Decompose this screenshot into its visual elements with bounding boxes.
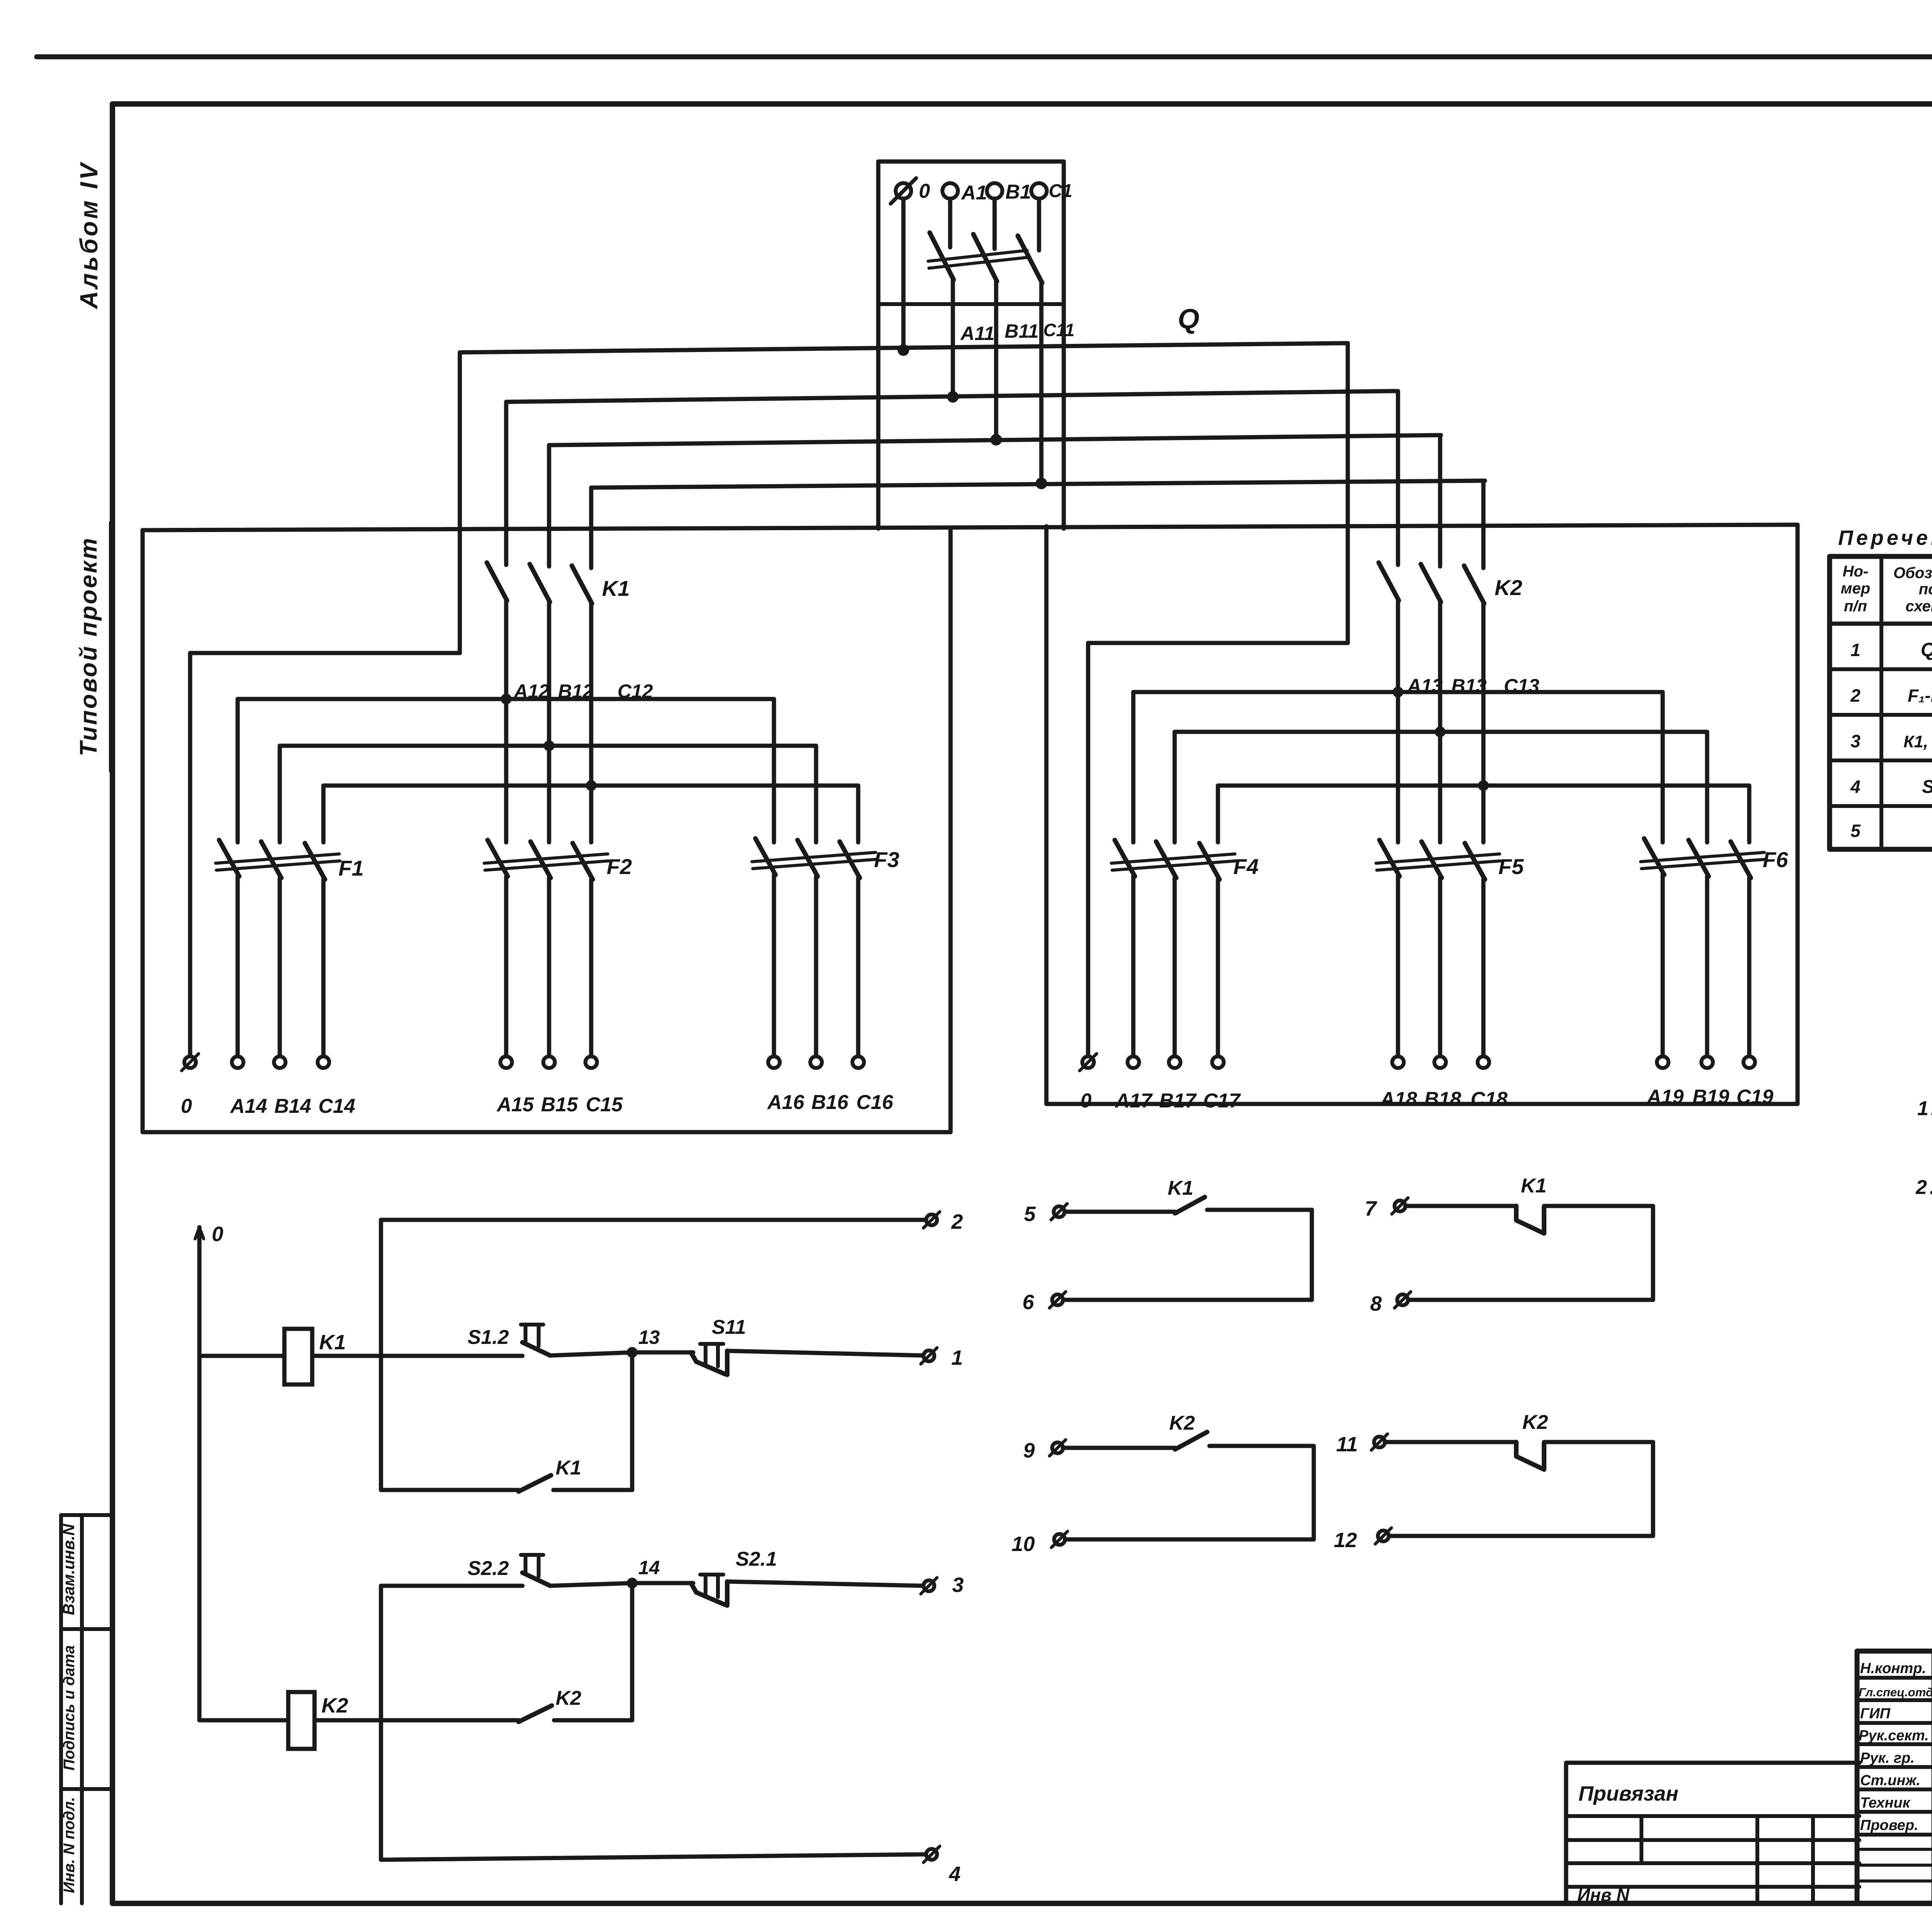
svg-text:A16: A16 — [767, 1091, 804, 1114]
svg-text:S1.2: S1.2 — [468, 1326, 509, 1349]
svg-text:6: 6 — [1022, 1291, 1034, 1314]
svg-text:B19: B19 — [1692, 1086, 1729, 1108]
terminal 2 — [926, 1214, 937, 1225]
terminal C1 — [1031, 183, 1047, 199]
terminal 10 — [1054, 1534, 1065, 1545]
wire 9 to K2 contact — [1063, 1446, 1175, 1450]
bus wire B — [549, 435, 1441, 445]
wire back to terminal 12 — [1389, 1534, 1653, 1538]
output wires 1RU — [238, 875, 858, 1056]
wire vertical S2.2 to terminal 4 — [379, 1586, 383, 1860]
wire to terminal 4 — [381, 1854, 926, 1860]
terminal 3 — [923, 1580, 934, 1591]
button S11 actuator — [700, 1344, 723, 1366]
svg-text:B11: B11 — [1005, 320, 1039, 342]
contactor K2 blade B — [1421, 564, 1441, 602]
svg-text:Н.контр.: Н.контр. — [1860, 1660, 1926, 1677]
svg-text:Но-: Но- — [1843, 563, 1869, 580]
output wires 2RU — [1133, 875, 1749, 1056]
breaker F6 crossbar — [1641, 852, 1765, 869]
wire 0 down — [901, 199, 906, 350]
wire phase B to F4/F6 — [1175, 732, 1707, 842]
svg-text:K2: K2 — [1522, 1411, 1548, 1434]
wire to corner — [1209, 1444, 1314, 1448]
svg-text:Рук.сект.: Рук.сект. — [1859, 1728, 1929, 1744]
svg-text:K1: K1 — [319, 1331, 346, 1354]
distribution cabinet 1RU top shared line — [143, 525, 1798, 530]
table row lines — [1830, 669, 1932, 806]
svg-text:K2: K2 — [1169, 1412, 1195, 1434]
wire B1 down — [993, 199, 997, 249]
svg-text:F2: F2 — [607, 854, 632, 879]
arrow tip of 0 — [195, 1227, 204, 1239]
wire vertical terminal2 to K1 aux — [379, 1220, 383, 1490]
breaker F2 blades — [488, 840, 593, 879]
contact K1 NC (7-8) — [1516, 1206, 1544, 1233]
loop 7-8 right vertical — [1651, 1206, 1655, 1300]
svg-text:5: 5 — [1024, 1202, 1036, 1226]
loop 5-6 right vertical — [1310, 1210, 1314, 1300]
svg-text:Техник: Техник — [1860, 1795, 1911, 1811]
wire B11 — [994, 281, 998, 440]
wire node 13 to S11 — [632, 1350, 693, 1355]
button S2.2 blade — [522, 1573, 550, 1586]
svg-text:Подпись и дата: Подпись и дата — [61, 1645, 78, 1770]
svg-text:B15: B15 — [541, 1094, 578, 1116]
terminal 0 of 1RU — [184, 1056, 196, 1068]
terminal A1 — [942, 183, 958, 199]
wire K2 feed B — [1438, 435, 1442, 566]
wire K1 feed B — [547, 445, 551, 566]
underline of IV — [110, 164, 113, 201]
svg-text:A15: A15 — [496, 1094, 534, 1116]
terminal 0 of Q — [896, 183, 911, 199]
svg-text:Альбом IV: Альбом IV — [75, 161, 103, 310]
svg-text:1: 1 — [951, 1346, 963, 1369]
wire phase C to F4/F6 — [1218, 786, 1749, 842]
coil K2 — [288, 1692, 315, 1749]
svg-text:K2: K2 — [1495, 575, 1522, 600]
wire K1 aux to riser — [553, 1488, 632, 1492]
knife blade pole C — [1018, 236, 1042, 283]
contactor K1 blade B — [530, 564, 550, 602]
node A13 tap — [1393, 687, 1403, 697]
wire B12 — [547, 602, 551, 842]
svg-text:0: 0 — [919, 180, 930, 202]
wire to corner — [1544, 1440, 1653, 1444]
svg-text:по: по — [1919, 581, 1932, 598]
wire A11 — [951, 280, 955, 397]
svg-text:Перечень аппаратуры распреде: Перечень аппаратуры распределительного у… — [1838, 526, 1932, 549]
svg-text:F3: F3 — [874, 847, 899, 872]
button S11 contact — [691, 1351, 727, 1375]
wire S11 to terminal 1 — [727, 1351, 923, 1355]
breaker F3 crossbar — [752, 852, 876, 869]
wire C11 — [1039, 283, 1044, 483]
svg-text:S: S — [1922, 777, 1932, 797]
node B13 tap — [1435, 726, 1446, 737]
breaker F1 crossbar — [216, 854, 340, 870]
breaker F2 crossbar — [484, 854, 609, 870]
margin stamp column — [61, 1515, 112, 1903]
breaker F5 blades — [1379, 840, 1485, 879]
wire C12 — [589, 604, 594, 842]
svg-text:Провер.: Провер. — [1860, 1817, 1918, 1833]
wire node 14 to S2.1 — [632, 1581, 693, 1585]
svg-text:A19: A19 — [1646, 1086, 1684, 1108]
wire K2 aux to riser — [554, 1718, 632, 1723]
terminal 11 — [1374, 1437, 1385, 1447]
wire 0 to coil K1 — [199, 1354, 284, 1358]
svg-text:C16: C16 — [856, 1091, 893, 1114]
svg-text:Инв N: Инв N — [1577, 1885, 1629, 1905]
top rule line — [37, 54, 1932, 60]
svg-text:B16: B16 — [811, 1091, 849, 1114]
svg-text:5: 5 — [1850, 821, 1861, 841]
contact K2 blade (9-10) — [1175, 1432, 1207, 1449]
distribution cabinet 2RU outline — [1046, 525, 1798, 1104]
node C13 tap — [1478, 780, 1489, 791]
breaker F1 blades — [219, 840, 325, 879]
table outline — [1830, 556, 1932, 849]
contact K1 blade (5-6) — [1175, 1197, 1205, 1213]
svg-text:F5: F5 — [1498, 854, 1524, 879]
output terminals 1RU — [232, 1056, 864, 1068]
svg-text:0: 0 — [181, 1095, 192, 1117]
contactor K2 blade A — [1379, 563, 1399, 600]
button S2.1 contact — [691, 1582, 727, 1605]
breaker F3 blades — [755, 838, 860, 878]
svg-text:K1: K1 — [556, 1457, 581, 1479]
breaker F5 crossbar — [1376, 854, 1500, 870]
cabinet 1RU outline — [143, 528, 951, 1132]
terminal 1 — [923, 1350, 934, 1361]
bus wire A — [506, 391, 1396, 402]
wire C13 — [1481, 604, 1486, 842]
svg-text:13: 13 — [638, 1327, 660, 1348]
wire neutral into 2RU — [1088, 343, 1348, 1056]
wire back to terminal 10 — [1065, 1537, 1314, 1542]
node B12 tap — [544, 740, 554, 751]
svg-text:К1, К2: К1, К2 — [1903, 732, 1932, 751]
svg-text:C1: C1 — [1049, 181, 1072, 201]
wire to terminal 2 — [381, 1218, 926, 1222]
svg-text:4: 4 — [1850, 777, 1861, 797]
svg-text:ГИП: ГИП — [1860, 1706, 1891, 1722]
title block top — [1857, 1651, 1932, 1903]
svg-text:A18: A18 — [1379, 1088, 1417, 1111]
svg-text:C15: C15 — [586, 1094, 623, 1116]
table header bottom — [1830, 622, 1932, 626]
wire S1.2 to node 13 — [550, 1352, 632, 1355]
wire phase C to F1/F3 — [323, 786, 858, 842]
svg-text:C18: C18 — [1471, 1088, 1507, 1111]
underline of Типовой проект — [109, 522, 112, 771]
button S1.2 actuator — [521, 1325, 543, 1346]
svg-text:B14: B14 — [274, 1095, 311, 1117]
wire to corner — [1544, 1204, 1653, 1208]
terminal 8 — [1397, 1294, 1408, 1305]
wire A13 — [1396, 600, 1400, 842]
svg-text:S2.2: S2.2 — [468, 1557, 509, 1580]
svg-text:K1: K1 — [1521, 1175, 1546, 1197]
svg-text:C14: C14 — [318, 1095, 355, 1117]
contact K2 aux blade — [519, 1706, 552, 1722]
node 14 — [627, 1578, 638, 1588]
svg-text:Ст.инж.: Ст.инж. — [1860, 1772, 1920, 1789]
switch Q enclosure — [878, 162, 1064, 529]
privyazan table — [1566, 1763, 1859, 1903]
terminal 4 — [926, 1849, 937, 1860]
svg-text:K2: K2 — [321, 1694, 348, 1717]
svg-text:11: 11 — [1336, 1433, 1358, 1456]
terminal B1 — [987, 183, 1002, 199]
svg-text:Q: Q — [1178, 304, 1199, 335]
terminal 9 — [1052, 1442, 1063, 1453]
svg-text:A1: A1 — [961, 182, 987, 204]
bus wire 0 — [460, 343, 1348, 352]
svg-text:8: 8 — [1370, 1292, 1382, 1315]
knife blade pole A — [930, 233, 954, 280]
terminal 0 of 2RU — [1082, 1056, 1094, 1068]
svg-text:F6: F6 — [1763, 847, 1788, 872]
svg-text:0: 0 — [1080, 1090, 1092, 1112]
wire phase A to F4/F6 — [1133, 692, 1663, 842]
svg-text:Q: Q — [1921, 639, 1932, 660]
svg-text:2: 2 — [1850, 685, 1861, 706]
bus wire C — [591, 481, 1485, 488]
wire K1 aux branch — [381, 1488, 519, 1492]
svg-text:F₁-F₆: F₁-F₆ — [1908, 685, 1932, 706]
button S2.2 actuator — [521, 1555, 543, 1577]
wire coil K1 to S1.2 — [312, 1354, 522, 1358]
svg-text:0: 0 — [212, 1223, 223, 1246]
wire coil K2 to contact — [315, 1718, 519, 1723]
switch Q internal line — [878, 302, 1064, 306]
wire K1 to corner — [1207, 1208, 1312, 1212]
svg-text:14: 14 — [638, 1557, 660, 1578]
svg-text:1: 1 — [1850, 640, 1861, 660]
svg-text:12: 12 — [1334, 1529, 1357, 1552]
wire B13 — [1438, 602, 1442, 842]
staff table rows — [1857, 1678, 1932, 1835]
wire S2.1 to terminal 3 — [727, 1582, 923, 1586]
breaker F4 blades — [1115, 840, 1219, 879]
contactor K1 blade A — [487, 563, 507, 600]
knife blade pole B — [973, 234, 997, 281]
svg-text:мер: мер — [1841, 580, 1870, 597]
wire neutral into 1RU — [190, 352, 460, 1056]
breaker F6 blades — [1644, 838, 1751, 878]
terminal 7 — [1395, 1201, 1405, 1211]
wire K1 feed A — [504, 402, 509, 565]
svg-text:п/п: п/п — [1844, 598, 1867, 615]
wire A1 down — [948, 199, 952, 247]
wire K2 feed C — [1481, 481, 1486, 568]
wire phase B to F1/F3 — [280, 746, 816, 842]
wire A12 — [504, 600, 509, 842]
svg-text:1. Принципиальные электрическ: 1. Принципиальные электрические схемы ра… — [1917, 1097, 1932, 1120]
svg-text:B1: B1 — [1005, 181, 1031, 203]
svg-text:K1: K1 — [602, 576, 630, 600]
terminal 12 — [1378, 1531, 1389, 1541]
terminal 5 — [1054, 1206, 1065, 1217]
svg-text:Рук. гр.: Рук. гр. — [1860, 1750, 1915, 1766]
svg-text:схеме: схеме — [1905, 598, 1932, 615]
svg-text:Взам.инв.N: Взам.инв.N — [60, 1523, 78, 1615]
staff table empty rows — [1857, 1849, 1932, 1881]
svg-text:7: 7 — [1365, 1197, 1378, 1220]
riser to node 13 — [630, 1352, 634, 1490]
svg-text:Типовой проект: Типовой проект — [75, 537, 102, 757]
node bus2/A11 — [947, 391, 959, 403]
node 13 — [627, 1347, 638, 1358]
svg-text:A14: A14 — [230, 1095, 267, 1117]
svg-text:Гл.спец.отд.: Гл.спец.отд. — [1859, 1685, 1932, 1699]
svg-text:C11: C11 — [1043, 320, 1075, 340]
svg-text:10: 10 — [1012, 1532, 1035, 1556]
loop 9-10 right vertical — [1312, 1446, 1316, 1539]
wire C1 down — [1037, 199, 1041, 250]
svg-text:F1: F1 — [338, 856, 364, 880]
wire 5 to K1 contact — [1065, 1210, 1175, 1214]
svg-text:S11: S11 — [712, 1316, 746, 1338]
svg-text:9: 9 — [1023, 1439, 1035, 1462]
svg-text:Привязан: Привязан — [1578, 1782, 1679, 1805]
svg-text:K1: K1 — [1168, 1177, 1193, 1199]
svg-text:B17: B17 — [1159, 1090, 1197, 1112]
svg-text:C17: C17 — [1203, 1090, 1241, 1112]
wire S2.2 to node 14 — [550, 1583, 632, 1586]
wire back to terminal 6 — [1063, 1298, 1312, 1302]
output terminals 2RU — [1128, 1056, 1755, 1068]
svg-text:Обознач.: Обознач. — [1893, 565, 1932, 582]
svg-text:C19: C19 — [1736, 1086, 1773, 1108]
button S2.1 actuator — [700, 1575, 723, 1597]
node C12 tap — [586, 780, 597, 791]
node A12 tap — [501, 694, 512, 704]
svg-text:A17: A17 — [1114, 1090, 1153, 1112]
node bus1/0 — [898, 344, 909, 356]
svg-text:B18: B18 — [1424, 1088, 1461, 1111]
contact K1 aux blade — [519, 1475, 551, 1492]
wire S2.2 rung — [381, 1584, 522, 1588]
svg-text:A11: A11 — [960, 323, 995, 344]
wire 7 to K1 NC — [1405, 1204, 1516, 1208]
node bus3/B11 — [990, 434, 1002, 446]
loop 11-12 right vertical — [1651, 1442, 1655, 1536]
svg-text:F4: F4 — [1233, 854, 1259, 879]
contactor K1 blade C — [572, 566, 592, 604]
svg-text:K2: K2 — [556, 1687, 582, 1709]
wire back to terminal 8 — [1408, 1298, 1653, 1302]
button S1.2 blade — [522, 1342, 550, 1355]
svg-text:2: 2 — [951, 1210, 963, 1233]
control bus 0 vertical — [197, 1227, 202, 1720]
svg-text:S2.1: S2.1 — [736, 1548, 777, 1570]
privyazan verticals — [1641, 1816, 1813, 1903]
wire K2 feed A — [1396, 391, 1400, 565]
svg-text:3: 3 — [952, 1573, 964, 1597]
contactor K2 blade C — [1464, 566, 1484, 604]
svg-text:3: 3 — [1850, 731, 1861, 751]
riser to node 14 — [630, 1583, 634, 1720]
node bus4/C11 — [1036, 478, 1047, 489]
table verticals — [1881, 556, 1932, 849]
svg-text:4: 4 — [949, 1862, 961, 1886]
wire phase A to F1/F3 — [238, 699, 774, 842]
wire 11 to K2 NC — [1385, 1440, 1516, 1444]
terminal 6 — [1052, 1294, 1063, 1305]
knife crossbar — [928, 250, 1028, 268]
wire 0 to coil K2 — [199, 1718, 288, 1723]
svg-text:2. Маркировка проводов сило: 2. Маркировка проводов силовых целей рас… — [1915, 1176, 1932, 1199]
breaker F4 crossbar — [1111, 854, 1236, 870]
contact K2 NC (11-12) — [1516, 1442, 1544, 1469]
privyazan rows — [1566, 1816, 1859, 1887]
wire K1 feed C — [589, 488, 594, 568]
coil K1 — [284, 1329, 312, 1384]
svg-text:Инв. N подл.: Инв. N подл. — [61, 1797, 78, 1893]
